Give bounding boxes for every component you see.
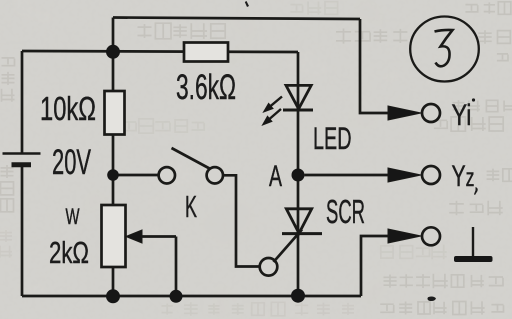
wire wiper to bottom bus [175,237,178,297]
wire bottom bus [22,295,361,298]
potentiometer W wiper arrow [140,235,176,238]
wire gate link [274,230,303,263]
wire top-left vertical link [112,18,115,53]
resistor R2 3.6kΩ body [184,43,228,62]
junction dot upper [106,45,120,59]
svg-text:20V: 20V [52,143,91,182]
switch K wire from junction [113,174,159,177]
svg-text:2kΩ: 2kΩ [49,235,89,270]
svg-text:A: A [269,160,282,193]
figure number circle 3 [410,17,479,82]
wire third output branch [361,236,390,296]
LED D1 light arrow 1 [267,97,282,109]
node A dot [292,169,305,182]
switch K blade [172,148,210,169]
junction dot bottom 3 [291,289,305,303]
wire top bus [113,18,360,20]
svg-text:Yz: Yz [452,160,475,193]
switch K left contact [159,167,175,183]
scan artifact comma below Yz [427,297,436,301]
junction dot mid-left [107,169,119,181]
terminal circle Yz [422,166,440,184]
SCR Q1 cathode bar [282,232,322,235]
wire Yz branch [305,174,391,177]
switch K right contact [207,167,223,183]
potentiometer W body [102,205,126,267]
SCR Q1 triangle [286,209,311,234]
LED D1 cathode bar [283,109,313,112]
scan artifact dot near Yi [472,98,475,101]
wire Yi branch [360,19,390,113]
svg-text:SCR: SCR [326,193,365,230]
svg-text:Yi: Yi [452,99,472,132]
wire left rail upper [21,51,24,153]
ground bar [454,256,493,262]
terminal circle Yi [422,104,440,122]
terminal arrow Yi [388,106,421,120]
SCR gate terminal circle [260,258,278,276]
LED D1 light arrow 2 [266,109,281,122]
wire switch to gate [223,175,260,266]
wire upper bus [22,51,298,52]
terminal arrow Yz [388,168,421,182]
wire middle branch vertical [112,52,115,296]
resistor R1 10kΩ body [105,91,125,135]
battery B1 short plate [12,162,32,167]
junction dot bottom 2 [170,290,183,303]
svg-text:W: W [66,204,80,229]
LED D1 triangle [286,85,311,109]
figure number 3 glyph [435,30,453,66]
wire right branch vertical [297,52,300,296]
battery B1 long plate [3,152,41,154]
terminal arrow output 3 [388,229,421,243]
svg-text:10kΩ: 10kΩ [40,90,96,127]
svg-text:K: K [185,189,197,224]
junction dot bottom 1 [106,289,120,303]
scan artifact tick top [245,1,249,7]
terminal circle output 3 [422,227,440,245]
svg-text:LED: LED [313,120,352,156]
svg-text:3.6kΩ: 3.6kΩ [176,68,236,107]
scan artifact comma after Yz [474,187,478,195]
ground lead [472,227,474,257]
wire left rail lower [21,165,24,296]
